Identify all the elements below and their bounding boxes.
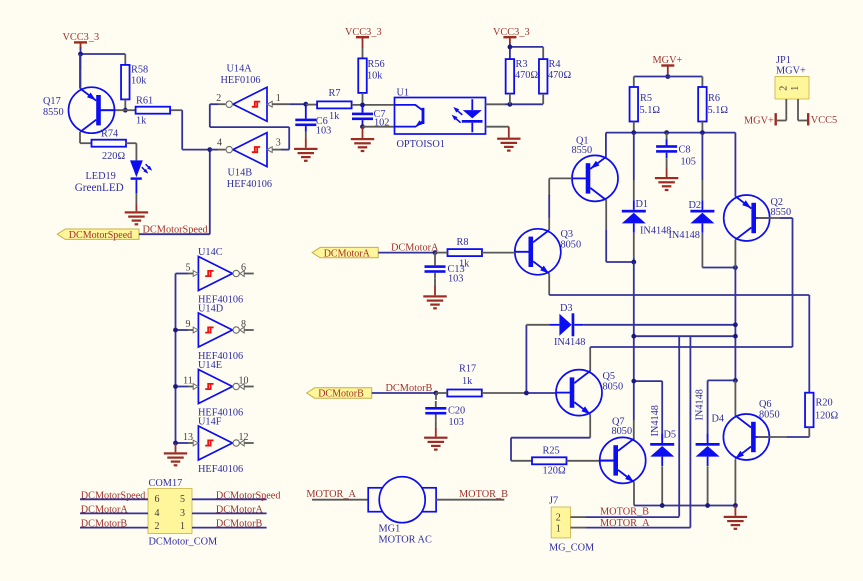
wire Q5 emitter to R25 (511, 415, 590, 461)
ground (LED19) (125, 205, 148, 226)
port flag DCMotorA (312, 247, 378, 259)
wire MOTOR_A vertical (689, 336, 691, 527)
svg-text:8550: 8550 (771, 207, 792, 218)
wire node B vertical (Q2c/D2 down to Q6 collector) (734, 268, 736, 381)
diode D4 (IN4148) (696, 434, 720, 467)
value 8050 (Q3) (561, 240, 582, 251)
resistor R20 (805, 393, 838, 428)
net label MOTOR_B (motor) (459, 489, 508, 500)
svg-text:R6: R6 (708, 93, 720, 104)
wire R5 bottom pin (633, 122, 635, 133)
pin 11 (U14E input) (183, 376, 193, 387)
wire U14C output stub (245, 273, 254, 275)
wire U14F output stub (245, 442, 254, 444)
wire U1 pin3 to ground (486, 126, 509, 128)
svg-text:3: 3 (276, 138, 281, 149)
junction MGV+ node (665, 74, 670, 79)
label MG_COM (549, 543, 594, 554)
wire LED19 cathode to ground (135, 193, 137, 205)
inverter U14E (HEF40106) (193, 370, 244, 404)
resistor R74 (92, 129, 127, 163)
svg-text:MOTOR_B: MOTOR_B (459, 489, 508, 500)
pin 4 (U14B input) (217, 138, 222, 149)
wire R56 bottom (362, 93, 364, 105)
junction U14A output / C6 / R7 (303, 102, 308, 107)
inverter U14A (HEF0106) (226, 87, 272, 121)
pin 5 (COM17) (180, 494, 185, 505)
net label VCC5 (JP1) (811, 115, 837, 126)
power symbol VCC5 (JP1 pin1) (807, 113, 809, 125)
wire Q6 base to R20 (758, 436, 810, 438)
svg-text:220Ω: 220Ω (102, 151, 125, 162)
label D3 (560, 303, 573, 314)
label Q1 (576, 136, 589, 147)
label HEF40106 (U14F) (198, 464, 243, 475)
net label DCMotorA (COM17 right) (216, 505, 264, 516)
wire COM17 left DCMotorA (80, 512, 148, 514)
wire U14F input (176, 442, 194, 444)
svg-text:HEF40106: HEF40106 (227, 179, 272, 190)
label Q5 (603, 371, 616, 382)
resistor R6 (698, 87, 728, 122)
svg-text:MOTOR_A: MOTOR_A (600, 518, 650, 529)
pin 2 (JP1) (778, 86, 789, 91)
label MG1 (379, 524, 401, 535)
svg-text:R8: R8 (457, 237, 469, 248)
wire U14E input (176, 386, 194, 388)
svg-text:3: 3 (180, 508, 185, 519)
value IN4148 (D4, vertical) (695, 389, 706, 420)
label HEF0106 (U14A) (221, 75, 261, 86)
junction DCMotorA / R8 / C13 (433, 250, 438, 255)
net label VCC3_3 (middle) (345, 27, 382, 38)
resistor R8 (448, 237, 483, 270)
wire C7 bottom (362, 126, 364, 127)
transistor Q1 (PNP 8550) (572, 155, 618, 201)
wire U14A output feedback (210, 104, 289, 149)
svg-text:120Ω: 120Ω (815, 411, 838, 422)
svg-text:Q6: Q6 (759, 399, 772, 410)
label U14F (198, 417, 222, 428)
wire emitter ground line (634, 505, 735, 507)
label U14A (227, 64, 253, 75)
svg-text:10: 10 (239, 376, 249, 387)
resistor R17 (447, 364, 482, 397)
net label VCC3_3 (top-left) (63, 32, 100, 43)
junction D2 / Q2 collector (733, 265, 738, 270)
resistor R58 (121, 65, 148, 100)
junction C7 / U1 pin2 / ground (360, 124, 365, 129)
wire top rail (R5/R6/C8 to Q1 and Q2 emitters) (606, 133, 736, 197)
wire R74 to LED19 (126, 143, 137, 160)
wire C8 bottom pin (666, 158, 668, 168)
wire MGV+ rail to R5/R6 (634, 77, 703, 88)
svg-text:DCMotorB: DCMotorB (318, 389, 364, 400)
svg-text:1: 1 (180, 521, 185, 532)
wire C6 top (305, 104, 307, 113)
wire rail to D2 (701, 133, 703, 201)
resistor R3 (506, 59, 539, 94)
wire D4 anode down (707, 466, 709, 505)
wire J7 pin1 MOTOR_A (571, 527, 691, 529)
svg-text:MOTOR AC: MOTOR AC (379, 535, 432, 546)
svg-text:IN4148: IN4148 (650, 405, 661, 436)
svg-text:Q3: Q3 (561, 229, 574, 240)
wire DCMotorB (372, 392, 436, 394)
svg-text:HEF0106: HEF0106 (221, 75, 261, 86)
net label MGV+ (top) (653, 55, 683, 66)
motor MG1 symbol (368, 477, 436, 523)
transistor Q5 (NPN 8050) (556, 370, 602, 416)
net label DCMotorB (COM17 left) (81, 519, 128, 530)
pin 13 (U14F input) (183, 432, 193, 443)
svg-text:R17: R17 (459, 364, 476, 375)
svg-text:5.1Ω: 5.1Ω (640, 105, 661, 116)
LED LED19 (GreenLED) (130, 160, 152, 193)
svg-text:9: 9 (186, 319, 191, 330)
connector COM17 body (148, 489, 192, 534)
pin 3 (COM17) (180, 508, 185, 519)
wire R8 to Q3 base (482, 252, 515, 254)
svg-text:R5: R5 (640, 93, 652, 104)
port flag DCMotorB (307, 388, 372, 400)
svg-text:U14F: U14F (198, 417, 222, 428)
wire C20 top (435, 393, 437, 400)
svg-text:IN4148: IN4148 (554, 337, 585, 348)
wire R6 bottom pin (701, 122, 703, 133)
wire Q1 collector down (606, 200, 634, 262)
inverter U14B (HEF40106) (226, 133, 272, 167)
capacitor C8 (656, 139, 696, 167)
wire U14E output stub (245, 386, 254, 388)
svg-text:D1: D1 (636, 199, 649, 210)
net label MOTOR_A (motor) (306, 489, 356, 500)
svg-text:D5: D5 (664, 430, 677, 441)
svg-text:U14A: U14A (227, 64, 253, 75)
wire R17 left pin (436, 392, 447, 394)
label JP1 (776, 55, 791, 66)
label OPTOISO1 (397, 139, 445, 150)
capacitor C6 (295, 113, 331, 137)
svg-text:U14E: U14E (198, 360, 222, 371)
resistor R7 (317, 88, 352, 122)
wire U14B input pin 3 (272, 149, 289, 151)
wire J7 pin2 MOTOR_B (571, 516, 680, 518)
pin 3 (U14B output) (276, 138, 281, 149)
svg-text:8050: 8050 (603, 381, 624, 392)
svg-text:470Ω: 470Ω (515, 70, 538, 81)
pin 5 (U14C input) (186, 263, 191, 274)
svg-text:J7: J7 (549, 496, 558, 507)
wire VCC3_3 to R3/R4 tops (510, 44, 543, 59)
svg-text:DCMotorA: DCMotorA (324, 248, 371, 259)
transistor Q17 (PNP 8550) (69, 87, 115, 133)
capacitor C20 (425, 401, 465, 428)
wire COM17 left DCMotorSpeed (80, 498, 148, 500)
wire D4 cathode up and right to node B (708, 380, 736, 440)
svg-text:D2: D2 (689, 200, 702, 211)
net label MGV+ (JP1) (744, 115, 774, 126)
junction rail/D2 (700, 130, 705, 135)
wire U14A input pin 1 (272, 103, 306, 105)
wire C8 top pin (666, 133, 668, 147)
svg-text:IN4148: IN4148 (640, 226, 671, 237)
net label DCMotorA (391, 242, 439, 253)
svg-text:1: 1 (790, 86, 801, 91)
diode D1 (IN4148) (622, 200, 646, 233)
ground (U1 pin3) (497, 127, 520, 152)
label U1 (397, 88, 410, 99)
svg-text:DCMotorSpeed: DCMotorSpeed (69, 230, 132, 241)
power symbol MGV+ (top) (661, 64, 674, 74)
inverter U14D (HEF40106) (193, 313, 244, 347)
pin 1 (J7) (556, 524, 561, 535)
svg-text:1k: 1k (462, 376, 473, 387)
transistor Q2 (PNP 8550) (724, 195, 770, 241)
svg-text:C8: C8 (679, 145, 691, 156)
svg-text:120Ω: 120Ω (543, 466, 566, 477)
value 8550 (Q2) (771, 207, 792, 218)
svg-text:R25: R25 (543, 446, 560, 457)
wire U14D input (176, 329, 194, 331)
svg-text:DCMotor_COM: DCMotor_COM (149, 536, 218, 547)
wire Q17 collector up (79, 54, 81, 89)
wire R8 left pin (435, 252, 448, 254)
wire Q6 collector up (734, 380, 736, 415)
value 8050 (Q5) (603, 381, 624, 392)
net label DCMotorB (386, 383, 433, 394)
wire D3 anode from R17 node (526, 325, 549, 393)
net label DCMotorSpeed (COM17 right) (216, 490, 281, 501)
svg-text:MG_COM: MG_COM (549, 543, 594, 554)
value 8050 (Q6) (759, 410, 780, 421)
svg-text:8: 8 (241, 319, 246, 330)
svg-text:R20: R20 (816, 398, 833, 409)
net label VCC3_3 (right) (493, 27, 530, 38)
net label MOTOR_B (J7) (600, 507, 649, 518)
value 8550 (Q17) (43, 107, 64, 118)
junction VCC3_3 node (78, 52, 83, 57)
wire U14 input column (175, 274, 177, 444)
value IN4148 (D2) (669, 230, 700, 241)
pin 10 (U14E output) (239, 376, 249, 387)
svg-text:R58: R58 (131, 65, 148, 76)
label U14E (198, 360, 222, 371)
wire U14C input (176, 273, 194, 275)
svg-text:R56: R56 (368, 59, 385, 70)
wire C13 top (434, 253, 436, 260)
power symbol VCC3_3 (right) (503, 36, 516, 44)
connector J7 body (551, 507, 570, 538)
wire D5 anode down (661, 466, 663, 505)
label HEF40106 (U14B) (227, 179, 272, 190)
net label MOTOR_A (J7) (600, 518, 650, 529)
svg-text:2: 2 (155, 521, 160, 532)
label COM17 (149, 478, 183, 489)
junction U14B input node (207, 147, 212, 152)
inverter U14F (HEF40106) (193, 426, 244, 460)
wire Q3 emitter down and across to R20 (549, 274, 809, 393)
svg-text:1k: 1k (136, 116, 147, 127)
wire R3 bottom (509, 94, 511, 105)
pin 1 (U14A output) (276, 93, 281, 104)
wire COM17 left DCMotorB (80, 527, 148, 529)
svg-text:5.1Ω: 5.1Ω (708, 105, 729, 116)
transistor Q7 (NPN 8050) (600, 437, 646, 483)
svg-text:5: 5 (180, 494, 185, 505)
svg-text:2: 2 (556, 512, 561, 523)
junction D5 branch / node A (631, 379, 636, 384)
wire R61 to U14B input (170, 110, 210, 149)
svg-text:2: 2 (216, 93, 221, 104)
resistor R5 (630, 87, 661, 122)
wire R7 left pin (306, 104, 317, 106)
svg-text:MOTOR_B: MOTOR_B (600, 507, 649, 518)
power symbol VCC3_3 (middle) (356, 36, 369, 48)
transistor Q6 (NPN 8050) (723, 414, 769, 460)
pin 2 (U14A input) (216, 93, 221, 104)
svg-text:8050: 8050 (759, 410, 780, 421)
junction R3/R4 top (508, 45, 513, 50)
label Q7 (612, 417, 625, 428)
svg-text:13: 13 (183, 432, 193, 443)
svg-text:R61: R61 (136, 96, 153, 107)
junction DCMotorB / R17 / C20 (434, 391, 439, 396)
label J7 (549, 496, 558, 507)
pin 6 (U14C output) (241, 263, 246, 274)
pin 4 (COM17) (155, 508, 160, 519)
svg-text:6: 6 (241, 263, 246, 274)
label HEF40106 (U14D) (198, 351, 243, 362)
wire COM17 right DCMotorA (192, 512, 267, 514)
wire COM17 right DCMotorSpeed (192, 498, 267, 500)
svg-text:U14B: U14B (228, 167, 253, 178)
wire VCC3_3 to Q17 collector and R58 (81, 47, 126, 89)
junction R58/R61/Q17 base (123, 108, 128, 113)
junction rail/C8 (664, 130, 669, 135)
ground (output stage) (724, 506, 747, 530)
label MGV+ (JP1) (776, 65, 806, 76)
svg-text:U1: U1 (397, 88, 410, 99)
label D5 (664, 430, 677, 441)
capacitor C7 (352, 107, 389, 129)
svg-text:12: 12 (239, 432, 249, 443)
ground (U14 column) (164, 443, 187, 466)
resistor R4 (539, 59, 571, 94)
label MOTOR AC (379, 535, 432, 546)
label HEF40106 (U14C) (198, 295, 243, 306)
svg-text:1: 1 (556, 524, 561, 535)
svg-text:8550: 8550 (43, 107, 64, 118)
svg-text:10k: 10k (367, 71, 383, 82)
label D4 (712, 414, 725, 425)
svg-text:D3: D3 (560, 303, 573, 314)
junction Q6 emitter / ground line (733, 503, 738, 508)
svg-text:4: 4 (217, 138, 222, 149)
wire MOTOR_B vertical (678, 336, 680, 516)
wire D2 bottom to Q2 collector (702, 233, 735, 268)
svg-text:10k: 10k (131, 76, 147, 87)
label U14C (198, 247, 223, 258)
wire C20 bottom (435, 420, 437, 427)
junction U14E input (173, 384, 178, 389)
wire U14D output stub (245, 329, 254, 331)
junction D4 / ground line (705, 503, 710, 508)
connector JP1 body (775, 77, 809, 100)
junction D1/Q1 collector (631, 260, 636, 265)
junction D4 branch / node B (733, 378, 738, 383)
pin 2 (COM17) (155, 521, 160, 532)
svg-text:U14D: U14D (198, 304, 224, 315)
pin 2 (J7) (556, 512, 561, 523)
wire DCMotorA (378, 252, 435, 254)
svg-text:6: 6 (155, 494, 160, 505)
svg-text:MG1: MG1 (379, 524, 401, 535)
svg-text:11: 11 (183, 376, 193, 387)
wire Q2 collector down (734, 240, 736, 268)
junction U14F input (173, 441, 178, 446)
value IN4148 (D3) (554, 337, 585, 348)
svg-text:MGV+: MGV+ (744, 115, 774, 126)
svg-text:DCMotorSpeed: DCMotorSpeed (216, 490, 281, 501)
wire R20 bottom pin (808, 427, 810, 437)
wire C6 bottom (305, 132, 307, 139)
resistor R61 (136, 96, 171, 127)
svg-text:R74: R74 (101, 129, 118, 140)
pin 1 (COM17) (180, 521, 185, 532)
wire R61 left pin (125, 109, 135, 111)
svg-text:8050: 8050 (612, 426, 633, 437)
svg-text:R7: R7 (329, 88, 341, 99)
capacitor C13 (425, 259, 465, 284)
wire MOTOR_B stub (436, 499, 504, 501)
wire U1 pin2 to ground node (363, 126, 395, 128)
wire R25 to Q7 base (567, 460, 615, 462)
resistor R56 (358, 58, 384, 93)
junction R7/R56/C7/U1 (360, 103, 365, 108)
label Q2 (771, 197, 784, 208)
svg-text:103: 103 (316, 126, 331, 137)
svg-text:MOTOR_A: MOTOR_A (306, 489, 356, 500)
transistor Q3 (NPN 8050) (515, 229, 561, 275)
power symbol VCC3_3 (top-left) (74, 41, 87, 49)
wire U14B output pin (210, 149, 226, 151)
svg-text:HEF40106: HEF40106 (198, 464, 243, 475)
wire R17 to Q5 base (482, 392, 556, 394)
wire JP1 pin2 (777, 99, 786, 121)
label HEF40106 (U14E) (198, 408, 243, 419)
label D1 (636, 199, 649, 210)
svg-text:MGV+: MGV+ (776, 65, 806, 76)
port flag DCMotorSpeed (57, 229, 139, 241)
resistor R25 (532, 446, 567, 477)
pin 9 (U14D input) (186, 319, 191, 330)
svg-text:DCMotorB: DCMotorB (81, 519, 128, 530)
wire D1 bottom (633, 233, 635, 262)
wire DCMotorSpeed (139, 150, 210, 235)
svg-text:C20: C20 (448, 406, 465, 417)
value 8550 (Q1) (572, 145, 593, 156)
wire U1 pin4 to R3/R4 (486, 103, 544, 105)
net label DCMotorA (COM17 left) (81, 505, 129, 516)
svg-text:U14C: U14C (198, 247, 223, 258)
svg-text:105: 105 (681, 157, 696, 168)
wire rail to D1 (633, 133, 635, 201)
svg-text:4: 4 (155, 508, 160, 519)
svg-text:IN4148: IN4148 (695, 389, 706, 420)
label Q6 (759, 399, 772, 410)
label GreenLED (75, 182, 124, 194)
